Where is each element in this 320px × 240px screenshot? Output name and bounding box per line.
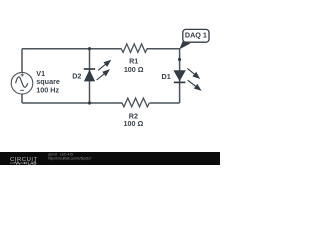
svg-text:LAB: LAB (28, 161, 37, 166)
svg-text:100 Ω: 100 Ω (124, 65, 144, 74)
svg-text:htlp://circuitlab.com/c/5ps5c7: htlp://circuitlab.com/c/5ps5c7 (48, 157, 92, 161)
svg-text:D1: D1 (162, 72, 171, 81)
svg-text:100 Ω: 100 Ω (124, 119, 144, 128)
svg-text:100 Hz: 100 Hz (36, 85, 59, 94)
svg-text:D2: D2 (72, 71, 81, 80)
svg-text:DAQ 1: DAQ 1 (185, 30, 207, 39)
